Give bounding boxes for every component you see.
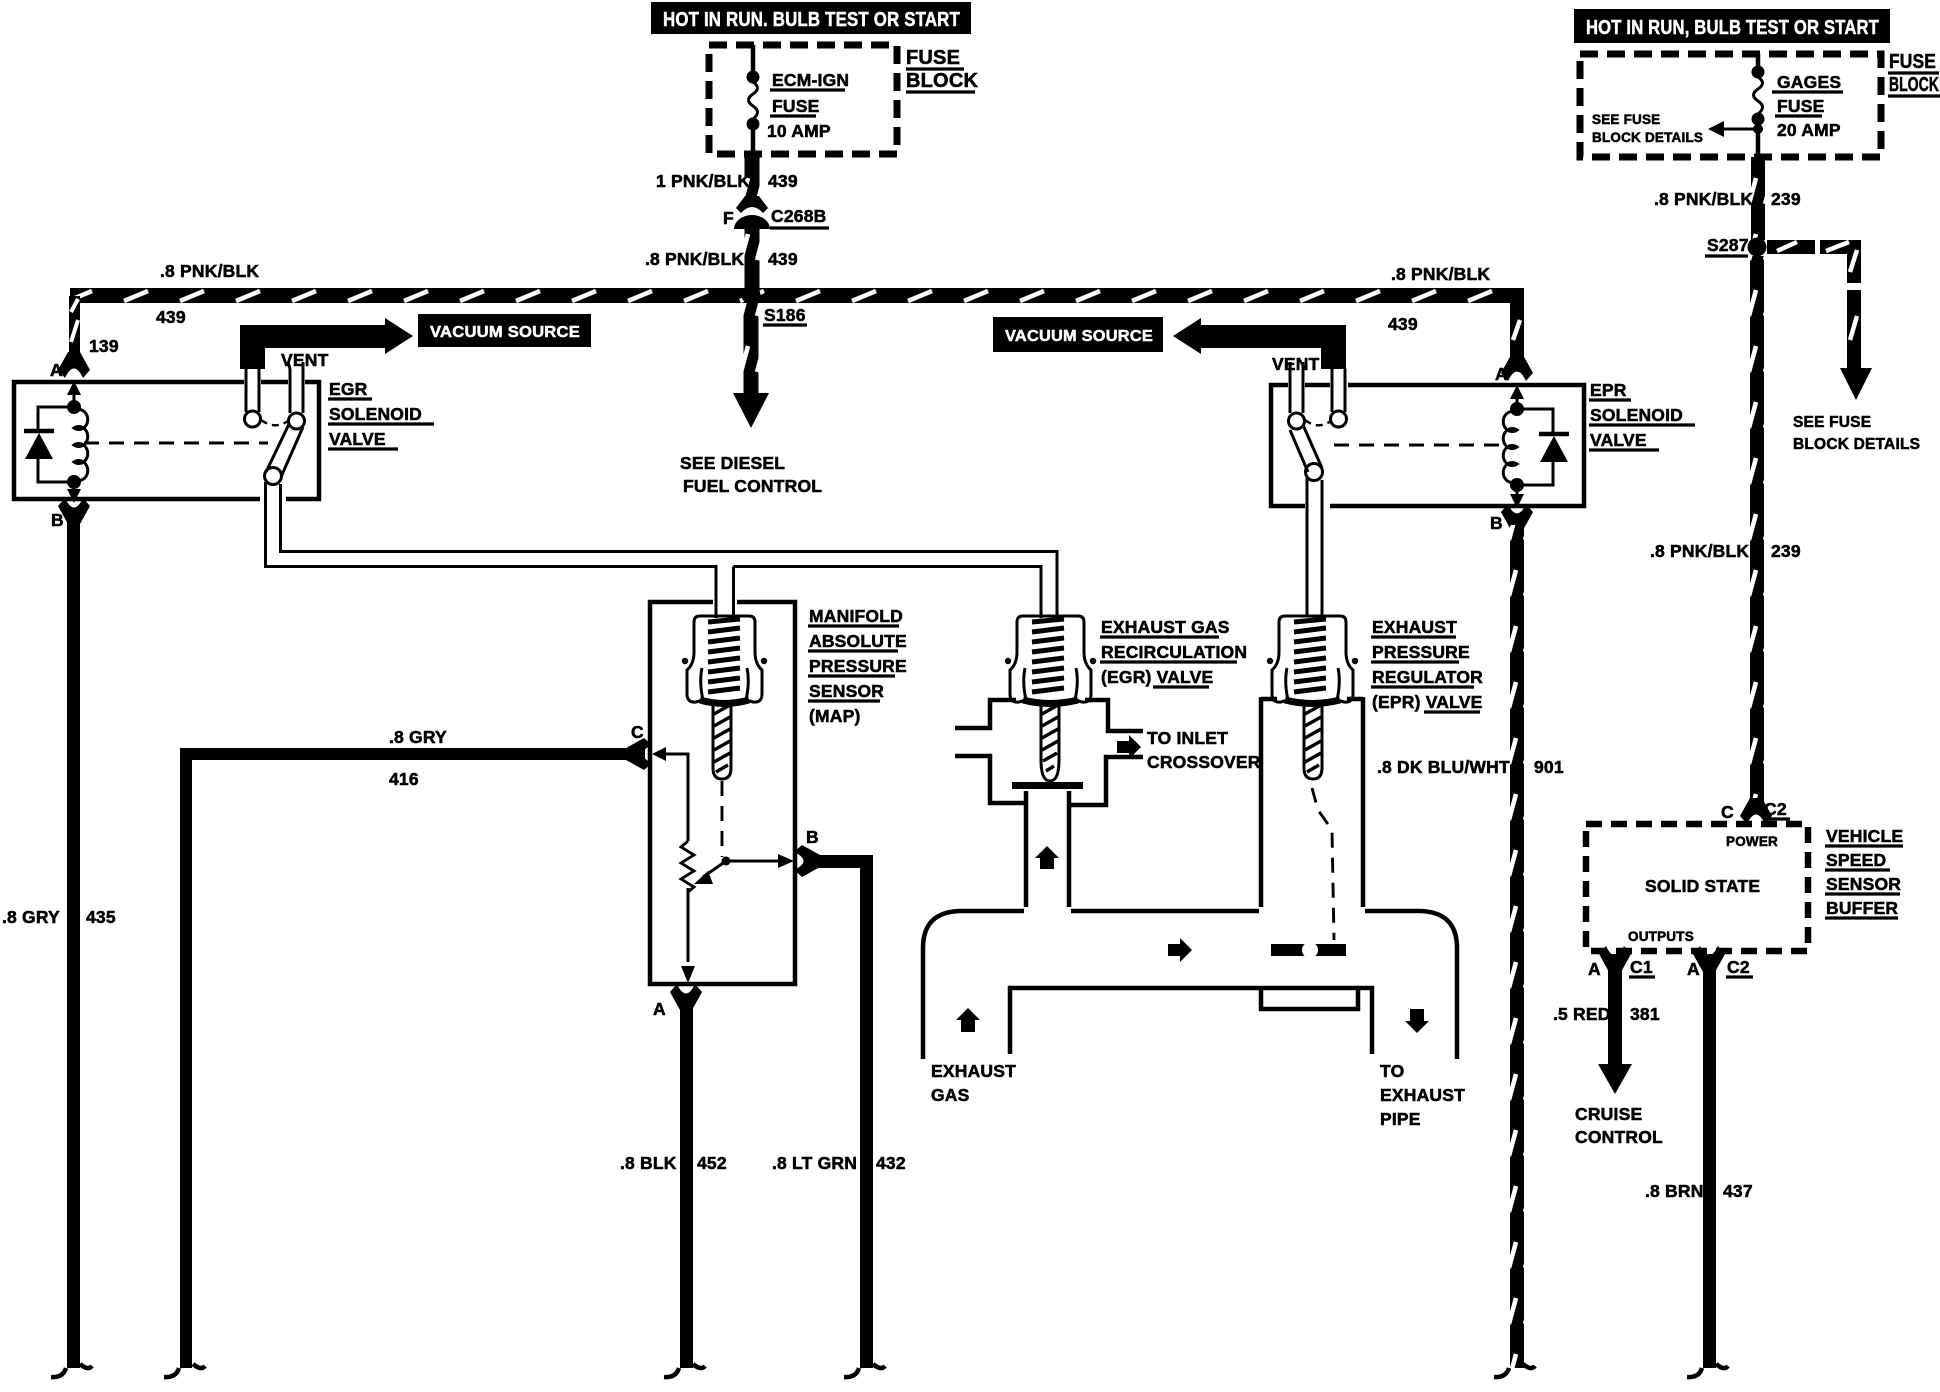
MAP wiper arm (694, 857, 780, 885)
svg-text:B: B (1490, 513, 1503, 533)
svg-text:SOLENOID: SOLENOID (329, 404, 422, 424)
banner HOT IN RUN. BULB TEST OR START (left) (651, 2, 971, 34)
svg-text:.8 PNK/BLK: .8 PNK/BLK (1654, 189, 1753, 209)
svg-text:TO INLET: TO INLET (1147, 728, 1228, 748)
svg-text:BLOCK: BLOCK (1889, 74, 1939, 96)
MAP internal resistor (663, 754, 694, 962)
label EGR SOLENOID VALVE (328, 379, 434, 449)
svg-text:(EPR) VALVE: (EPR) VALVE (1372, 692, 1482, 712)
banner HOT IN RUN, BULB TEST OR START (right) (1574, 9, 1890, 43)
wire .8 PNK/BLK 239 (S287 to buffer) (1750, 256, 1764, 804)
svg-text:MANIFOLD: MANIFOLD (809, 606, 903, 626)
label VEHICLE SPEED SENSOR BUFFER (1825, 826, 1903, 918)
svg-text:C1: C1 (1630, 957, 1653, 977)
svg-text:BLOCK DETAILS: BLOCK DETAILS (1592, 130, 1703, 145)
svg-text:B: B (806, 827, 819, 847)
svg-text:SOLENOID: SOLENOID (1590, 405, 1683, 425)
svg-text:ECM-IGN: ECM-IGN (772, 70, 849, 90)
dashed line plunger to wiper (721, 781, 724, 857)
arrow to SEE DIESEL FUEL CONTROL (733, 393, 769, 428)
EPR valve spring (1294, 619, 1326, 692)
connector B (MAP sensor) (794, 845, 820, 877)
svg-text:SEE FUSE: SEE FUSE (1793, 414, 1871, 431)
junction S186 (742, 286, 761, 305)
EGR solenoid valve box (14, 382, 319, 499)
vent port left (EPR solenoid) (1289, 362, 1305, 429)
svg-text:(MAP): (MAP) (809, 706, 861, 726)
svg-text:(EGR) VALVE: (EGR) VALVE (1101, 667, 1213, 687)
label ECM-IGN FUSE 10 AMP (767, 70, 849, 141)
junction S287 (1748, 238, 1767, 257)
svg-text:REGULATOR: REGULATOR (1372, 667, 1483, 687)
exhaust pipe inner (1010, 988, 1372, 1054)
svg-text:EXHAUST: EXHAUST (1380, 1085, 1465, 1105)
svg-text:GAS: GAS (931, 1085, 970, 1105)
svg-text:SEE FUSE: SEE FUSE (1592, 112, 1660, 127)
svg-text:.8 LT GRN: .8 LT GRN (772, 1153, 857, 1173)
fuse block box (dashed, right) (1580, 54, 1881, 157)
solenoid coil (EPR solenoid) (1503, 402, 1524, 495)
dashed arc between ports (261, 420, 288, 425)
svg-text:BUFFER: BUFFER (1826, 898, 1898, 918)
svg-text:439: 439 (768, 249, 798, 269)
wire .5 RED 381 (arrow to cruise control) (1598, 954, 1632, 1094)
arrow pin B inside box (67, 489, 81, 503)
label EXHAUST GAS RECIRCULATION (EGR) VALVE (1100, 617, 1247, 687)
arrow to exhaust pipe down (1405, 1009, 1429, 1033)
EPR valve cup (1267, 616, 1358, 704)
svg-text:EPR: EPR (1590, 380, 1627, 400)
svg-text:RECIRCULATION: RECIRCULATION (1101, 642, 1247, 662)
arrow pin A inside MAP (681, 966, 695, 983)
svg-text:C2: C2 (1764, 799, 1787, 819)
arrow up in EGR pipe (1035, 846, 1059, 869)
connector C (MAP sensor) (626, 738, 652, 770)
svg-text:439: 439 (768, 171, 798, 191)
svg-text:432: 432 (876, 1153, 906, 1173)
wire .8 GRY 435 (67, 521, 80, 1368)
svg-text:10 AMP: 10 AMP (767, 121, 831, 141)
svg-text:F: F (723, 208, 734, 228)
EGR valve body (955, 700, 1143, 907)
connector B (EGR solenoid valve) (58, 498, 90, 524)
arrow to inlet crossover (1117, 735, 1141, 759)
svg-text:CRUISE: CRUISE (1575, 1104, 1642, 1124)
label GAGES FUSE 20 AMP (1772, 72, 1843, 140)
fuse ECM-IGN 10 AMP (747, 45, 760, 154)
EPR solenoid valve box (1271, 385, 1584, 506)
svg-text:.5 RED: .5 RED (1553, 1004, 1611, 1024)
connector C268B (734, 196, 770, 229)
wire bus left end down to A (69, 296, 80, 360)
svg-text:TO: TO (1380, 1061, 1404, 1081)
label EXHAUST PRESSURE REGULATOR (EPR) VALVE (1371, 617, 1483, 712)
svg-text:452: 452 (697, 1153, 727, 1173)
dashed arc between ports (EPR solenoid) (1305, 420, 1331, 425)
svg-text:416: 416 (389, 769, 419, 789)
svg-text:S287: S287 (1707, 235, 1749, 255)
wire S186 down (744, 303, 759, 395)
svg-text:FUSE: FUSE (1889, 51, 1936, 73)
MAP plunger rod (713, 703, 731, 779)
svg-text:EGR: EGR (329, 379, 368, 399)
svg-text:239: 239 (1771, 189, 1801, 209)
dashed linkage (EGR solenoid) (84, 442, 268, 445)
svg-text:SEE DIESEL: SEE DIESEL (680, 453, 785, 473)
connector A (EGR solenoid valve) (58, 352, 90, 378)
wire .8 GRY 416 (164, 748, 645, 1377)
connector B (EPR solenoid valve) (1501, 504, 1533, 530)
vent port right (EPR solenoid) with cap (1331, 369, 1347, 427)
svg-text:PRESSURE: PRESSURE (1372, 642, 1470, 662)
svg-text:.8 BRN: .8 BRN (1645, 1181, 1704, 1201)
svg-text:439: 439 (1388, 314, 1418, 334)
plunger (EPR solenoid) (1290, 425, 1323, 616)
svg-text:VENT: VENT (1272, 354, 1320, 374)
wire .8 DK BLU/WHT 901 (1510, 525, 1524, 1368)
banner VACUUM SOURCE (right) (993, 317, 1163, 352)
svg-text:VENT: VENT (281, 350, 329, 370)
MAP diaphragm cup (682, 616, 767, 704)
solid state buffer box (dashed) (1586, 824, 1808, 951)
svg-text:439: 439 (156, 307, 186, 327)
svg-text:.8 PNK/BLK: .8 PNK/BLK (160, 261, 259, 281)
arrow exhaust gas up (956, 1008, 980, 1032)
label FUSE BLOCK (right) (1888, 51, 1940, 96)
diode (EGR solenoid) (24, 407, 74, 482)
svg-text:FUSE: FUSE (1777, 96, 1824, 116)
svg-text:.8 PNK/BLK: .8 PNK/BLK (1391, 264, 1490, 284)
svg-text:BLOCK: BLOCK (906, 70, 978, 92)
svg-text:.8 GRY: .8 GRY (2, 907, 60, 927)
arrow pin B inside MAP (778, 854, 794, 868)
svg-text:OUTPUTS: OUTPUTS (1628, 929, 1694, 944)
svg-text:EXHAUST GAS: EXHAUST GAS (1101, 617, 1230, 637)
wire .8 PNK/BLK 439 (C268B to S186) (745, 226, 760, 288)
banner VACUUM SOURCE (left) (418, 314, 591, 347)
svg-text:BLOCK DETAILS: BLOCK DETAILS (1793, 436, 1920, 453)
MAP sensor box (650, 602, 795, 984)
svg-text:VEHICLE: VEHICLE (1826, 826, 1903, 846)
fuse GAGES 20 AMP (1752, 54, 1765, 157)
MAP spring (708, 619, 740, 692)
vacuum hose (EGR solenoid to MAP and EGR valve) (266, 549, 1058, 618)
svg-text:EXHAUST: EXHAUST (931, 1061, 1016, 1081)
svg-text:POWER: POWER (1726, 834, 1778, 849)
fuse block box (dashed, top center) (709, 45, 897, 154)
connector A (MAP sensor) (670, 984, 702, 1010)
wire branch right from S287 (1767, 240, 1872, 400)
svg-text:.8 PNK/BLK: .8 PNK/BLK (645, 249, 744, 269)
connector A C1 (1599, 946, 1631, 972)
svg-text:139: 139 (89, 336, 119, 356)
svg-text:ABSOLUTE: ABSOLUTE (809, 631, 907, 651)
dashed linkage (EPR solenoid) (1334, 444, 1508, 447)
svg-text:VACUUM SOURCE: VACUUM SOURCE (430, 324, 580, 341)
svg-text:HOT IN RUN, BULB TEST OR START: HOT IN RUN, BULB TEST OR START (1586, 17, 1879, 39)
vacuum tube L (EPR solenoid vent to vacuum source) (1173, 318, 1346, 369)
label MANIFOLD ABSOLUTE PRESSURE SENSOR (MAP) (808, 606, 907, 726)
svg-text:.8 DK BLU/WHT: .8 DK BLU/WHT (1377, 757, 1510, 777)
wire .8 PNK/BLK 239 (fuse to S287) (1751, 157, 1765, 240)
svg-text:SENSOR: SENSOR (809, 681, 884, 701)
svg-text:437: 437 (1723, 1181, 1753, 1201)
svg-text:SOLID STATE: SOLID STATE (1645, 876, 1760, 896)
arrow pin B inside box (EPR solenoid) (1510, 494, 1524, 508)
label EPR SOLENOID VALVE (1589, 380, 1695, 450)
svg-text:VALVE: VALVE (329, 429, 386, 449)
svg-text:CONTROL: CONTROL (1575, 1127, 1663, 1147)
svg-text:1 PNK/BLK: 1 PNK/BLK (656, 171, 750, 191)
wire bus right end down to A (1510, 288, 1524, 363)
label FUSE BLOCK (top center) (906, 47, 978, 92)
svg-text:435: 435 (86, 907, 116, 927)
arrow see fuse block details (inside box) (1708, 121, 1763, 137)
vent port left (EGR solenoid) with cap (245, 369, 261, 427)
diode (EPR solenoid) (1517, 409, 1569, 485)
svg-text:FUSE: FUSE (906, 47, 960, 69)
svg-text:VALVE: VALVE (1590, 430, 1647, 450)
wire .8 BRN 437 (1703, 954, 1716, 1368)
svg-text:FUSE: FUSE (772, 96, 819, 116)
svg-text:VACUUM SOURCE: VACUUM SOURCE (1005, 328, 1153, 345)
wire main bus .8 PNK/BLK 439 (horizontal hatched) (70, 288, 1524, 303)
svg-text:A: A (653, 999, 666, 1019)
solenoid coil (EGR solenoid) (67, 400, 88, 492)
wire .8 BLK 452 (680, 997, 693, 1368)
connector C C2 (buffer power) (1740, 798, 1772, 824)
svg-text:PIPE: PIPE (1380, 1109, 1421, 1129)
svg-text:C268B: C268B (771, 206, 826, 226)
svg-text:S186: S186 (764, 305, 806, 325)
connector A (EPR solenoid valve) (1501, 355, 1533, 381)
arrow flow right in pipe (1168, 938, 1192, 962)
EGR valve cup (1005, 616, 1096, 704)
connector A C2 (1693, 946, 1725, 972)
exhaust pipe outer (923, 911, 1457, 1059)
svg-text:CROSSOVER: CROSSOVER (1147, 752, 1261, 772)
svg-text:.8 GRY: .8 GRY (389, 727, 447, 747)
svg-text:C: C (1721, 802, 1734, 822)
svg-text:SENSOR: SENSOR (1826, 874, 1901, 894)
wire .8 LT GRN 432 (810, 855, 885, 1377)
svg-text:FUEL CONTROL: FUEL CONTROL (683, 476, 822, 496)
svg-text:901: 901 (1534, 757, 1564, 777)
EGR valve spring (1032, 619, 1064, 692)
svg-text:239: 239 (1771, 541, 1801, 561)
svg-text:A: A (1588, 959, 1601, 979)
plunger (EGR solenoid) (265, 424, 304, 552)
svg-text:PRESSURE: PRESSURE (809, 656, 907, 676)
vent port right (EGR solenoid) (288, 362, 305, 429)
svg-text:.8 BLK: .8 BLK (620, 1153, 677, 1173)
svg-text:20 AMP: 20 AMP (1777, 120, 1841, 140)
svg-text:HOT IN RUN. BULB TEST OR START: HOT IN RUN. BULB TEST OR START (663, 9, 960, 31)
EPR valve plunger (1304, 703, 1322, 779)
EPR valve body (1261, 697, 1363, 907)
wire 1 PNK/BLK 439 (fuse to C268B) (745, 154, 760, 205)
vacuum tube L (EGR solenoid vent to vacuum source) (240, 318, 413, 369)
dashed link EPR plunger to valve plate (1312, 788, 1334, 940)
EPR valve plate (1271, 942, 1346, 958)
svg-text:EXHAUST: EXHAUST (1372, 617, 1457, 637)
svg-text:GAGES: GAGES (1777, 72, 1841, 92)
svg-text:C2: C2 (1727, 957, 1750, 977)
svg-text:381: 381 (1630, 1004, 1660, 1024)
svg-text:.8 PNK/BLK: .8 PNK/BLK (1650, 541, 1749, 561)
EGR valve stem (1041, 703, 1059, 781)
svg-text:SPEED: SPEED (1826, 850, 1886, 870)
svg-text:C: C (631, 722, 644, 742)
